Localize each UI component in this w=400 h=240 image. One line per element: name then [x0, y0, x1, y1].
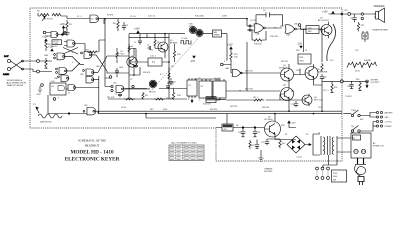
- connector box U2: [199, 79, 212, 98]
- svg-text:R15 2200: R15 2200: [195, 16, 205, 18]
- switch SW2: [351, 126, 365, 133]
- svg-text:POWER: POWER: [385, 126, 392, 128]
- svg-text:C14 .1: C14 .1: [150, 56, 157, 58]
- label Q6: [317, 69, 328, 73]
- ground chassis: [259, 150, 264, 161]
- regulator box U6: [222, 124, 233, 131]
- gate U3A: [57, 53, 65, 60]
- AC interlock box: [351, 133, 371, 158]
- svg-text:BATTERY: BATTERY: [385, 112, 394, 115]
- svg-text:+13V: +13V: [48, 46, 54, 49]
- svg-text:U4B: U4B: [256, 34, 261, 36]
- -13V arrow right: [300, 46, 302, 48]
- svg-text:R10 470: R10 470: [166, 98, 173, 100]
- svg-text:C6: C6: [171, 66, 173, 68]
- transistor Q6: [305, 64, 318, 85]
- wire U1A down feed: [99, 19, 111, 87]
- capacitor C12 rail: [320, 74, 324, 85]
- svg-text:HEATHKIT: HEATHKIT: [85, 144, 100, 148]
- svg-text:C3: C3: [134, 42, 136, 44]
- gate U1F: [46, 32, 58, 38]
- svg-text:C7: C7: [130, 79, 132, 81]
- svg-text:C21: C21: [257, 132, 260, 134]
- pin circle output: [366, 80, 369, 83]
- svg-text:C20: C20: [238, 132, 241, 134]
- svg-text:R33: R33: [334, 87, 337, 89]
- junction dots reg row: [242, 127, 244, 129]
- svg-text:U3C: U3C: [80, 74, 84, 76]
- sawtooth waveform: [347, 62, 377, 68]
- gate U1A: [90, 15, 99, 22]
- +13V arrow power: [288, 121, 290, 123]
- svg-text:C1 .1: C1 .1: [77, 16, 82, 18]
- svg-text:INTERLOCK: INTERLOCK: [373, 146, 385, 148]
- pin circles on border: [37, 60, 40, 63]
- transistor Q5: [281, 64, 294, 85]
- gate U2A: [84, 52, 92, 59]
- wire regulator row: [216, 127, 264, 129]
- +13V top right: [332, 12, 334, 14]
- X cross wires: [63, 42, 78, 55]
- transistor Q2: [158, 34, 168, 58]
- svg-text:C5: C5: [131, 56, 133, 58]
- svg-text:4.7: 4.7: [160, 74, 163, 76]
- svg-text:R20: R20: [280, 26, 283, 28]
- capacitor C1: [62, 31, 70, 37]
- pin circle speaker line: [348, 13, 351, 16]
- svg-text:120V: 120V: [333, 173, 338, 175]
- svg-text:R24: R24: [296, 50, 299, 52]
- svg-text:(CW): (CW): [222, 16, 227, 18]
- svg-text:U1D: U1D: [84, 105, 88, 107]
- svg-text:+13V: +13V: [60, 24, 66, 26]
- pin circle node C: [64, 32, 66, 34]
- label CHASSIS GROUND: [264, 168, 273, 174]
- capacitor C23: [251, 140, 259, 149]
- resistor R6b: [128, 44, 130, 54]
- voltage selector switch: [316, 167, 347, 182]
- label Q1 AF OSC: [117, 51, 125, 56]
- gate U4B: [285, 25, 296, 37]
- IC box U3: [50, 83, 66, 95]
- wire speed box right and down: [203, 34, 227, 65]
- switch SW1 keying: [343, 110, 365, 117]
- pin circle node 5: [109, 76, 112, 79]
- svg-text:9: 9: [58, 98, 59, 100]
- speed pot knob R17: [196, 29, 203, 36]
- resistor R31 series: [252, 99, 267, 101]
- capacitor C2: [122, 22, 129, 30]
- svg-text:TO KEY: TO KEY: [345, 96, 353, 98]
- capacitor C5b: [134, 63, 138, 68]
- capacitor C8 series: [166, 82, 175, 89]
- gate U3B: [59, 68, 67, 75]
- svg-text:R31: R31: [291, 91, 294, 93]
- svg-text:6: 6: [224, 61, 225, 63]
- svg-text:13V REG: 13V REG: [264, 119, 273, 121]
- cross-coupled wires: [64, 56, 84, 71]
- wire reg box to rail: [226, 114, 228, 124]
- transistor Q3 keyout: [302, 94, 312, 107]
- svg-text:R24 470: R24 470: [210, 109, 217, 111]
- label Q4: [283, 85, 287, 87]
- pin circle sidetone: [298, 24, 301, 27]
- capacitor C20: [238, 128, 245, 137]
- label switch1: [351, 110, 364, 121]
- svg-text:MODEL HD - 1410: MODEL HD - 1410: [70, 150, 113, 156]
- IC label box U1: [52, 40, 62, 45]
- svg-text:U4C: U4C: [287, 35, 292, 37]
- gate U4A: [254, 24, 265, 36]
- resistor R8: [154, 38, 159, 49]
- -13V arrow: [193, 56, 195, 58]
- label KEYER OUTPUT: [371, 80, 381, 85]
- resistor R27 on rail: [321, 29, 323, 72]
- wire gate row to Q5: [240, 72, 280, 74]
- svg-text:C9 .02: C9 .02: [250, 20, 256, 22]
- gate U4D: [232, 69, 242, 77]
- svg-text:C16: C16: [347, 86, 350, 88]
- svg-text:C2 .05: C2 .05: [130, 16, 136, 18]
- svg-text:C25 .02: C25 .02: [148, 16, 156, 18]
- svg-text:-13V: -13V: [190, 60, 195, 63]
- label Q7 AF AMP: [318, 18, 330, 23]
- clock waveform glyph: [181, 41, 191, 45]
- wire Q4 down to rail: [289, 85, 322, 111]
- note text keyer paddle: [6, 79, 26, 87]
- table cell text: [170, 146, 203, 159]
- svg-text:C7: C7: [115, 94, 117, 96]
- mechanical link dashed: [150, 33, 203, 92]
- wire border pin top: [341, 13, 343, 15]
- +13V arrow U1F: [62, 26, 64, 28]
- gate U3E: [61, 75, 69, 81]
- svg-text:( ALL VOLTAGES TO GND ): ( ALL VOLTAGES TO GND ): [171, 142, 197, 145]
- svg-text:ZD1: ZD1: [224, 129, 228, 131]
- svg-text:R11 47K: R11 47K: [107, 97, 115, 99]
- svg-text:DASH: DASH: [3, 73, 9, 76]
- pin circle keyer out on border: [340, 80, 343, 83]
- pot R2 top-left: [37, 11, 61, 22]
- +13V arrow left: [45, 39, 47, 41]
- svg-text:D1-D4: D1-D4: [297, 157, 302, 159]
- label Q8: [264, 117, 273, 122]
- svg-text:R22 47K: R22 47K: [245, 89, 253, 91]
- capacitor C24 mid: [115, 68, 119, 77]
- svg-text:R19 10K: R19 10K: [270, 36, 278, 38]
- svg-text:1.2 kHz: 1.2 kHz: [181, 38, 187, 40]
- svg-text:KEYER: KEYER: [371, 80, 379, 82]
- svg-text:-13V: -13V: [297, 43, 302, 46]
- svg-text:4: 4: [72, 62, 73, 64]
- wire mid row 99: [185, 89, 187, 100]
- svg-text:+12 VDC: +12 VDC: [385, 122, 393, 124]
- label AC INTERLOCK: [373, 142, 385, 148]
- label R16 220: [189, 24, 194, 28]
- capacitor C9 feedback: [256, 10, 283, 26]
- svg-text:U6: U6: [236, 125, 238, 127]
- AC plug and cord: [355, 158, 366, 185]
- transformer T2: [318, 133, 337, 156]
- ground arrow bottom left: [38, 86, 42, 93]
- svg-text:1000: 1000: [119, 67, 123, 69]
- svg-text:C4: C4: [147, 45, 149, 47]
- speed pot R1 wavy element: [36, 107, 62, 118]
- resistor R3 series: [66, 20, 73, 30]
- svg-text:R7: R7: [131, 46, 133, 48]
- resistor R13b: [168, 72, 170, 80]
- gate U3F: [68, 85, 75, 91]
- resistor R34b: [249, 140, 251, 149]
- capacitor C7: [115, 92, 122, 97]
- wire Q3 row: [226, 94, 302, 100]
- svg-text:R8: R8: [157, 42, 159, 44]
- transistor Q4: [281, 85, 294, 105]
- resistor R29: [357, 22, 364, 31]
- svg-text:U2: U2: [198, 78, 200, 80]
- arrow output: [366, 83, 368, 88]
- resistor R5b horizontal: [87, 51, 98, 53]
- capacitor C6: [169, 78, 177, 85]
- pin stub circles gates: [54, 52, 85, 112]
- svg-text:AF AMP: AF AMP: [170, 42, 178, 45]
- volume pot R9 knob: [149, 80, 157, 93]
- speed box: [213, 30, 222, 37]
- arrow to transformer: [305, 144, 311, 146]
- wire audio row: [125, 88, 185, 90]
- svg-text:R24 470: R24 470: [203, 104, 211, 106]
- headphone jack J2: [362, 31, 368, 42]
- svg-text:R27: R27: [323, 77, 326, 79]
- resistor chain row99: [124, 98, 165, 100]
- transistor Q1: [127, 48, 137, 75]
- double wire output: [95, 111, 342, 113]
- pin circles U4A inputs: [249, 25, 251, 27]
- svg-text:C10: C10: [296, 70, 299, 72]
- svg-text:8: 8: [72, 52, 73, 54]
- wire clock row: [195, 42, 247, 91]
- svg-text:REAR OF KEYER: REAR OF KEYER: [7, 84, 24, 87]
- wire switches to terminals: [365, 113, 376, 132]
- svg-text:R3 47K: R3 47K: [107, 15, 114, 17]
- bridge rectifier D1-D4: [287, 136, 305, 159]
- svg-text:C8 10: C8 10: [121, 107, 126, 109]
- svg-text:R28 100: R28 100: [262, 107, 269, 109]
- svg-text:13: 13: [68, 93, 70, 95]
- resistor R10 vertical: [172, 89, 181, 100]
- gate U1D keying: [87, 108, 96, 115]
- svg-text:GND: GND: [385, 117, 390, 119]
- terminal strip circles: [376, 111, 382, 127]
- third rail wire: [146, 114, 216, 118]
- junction dot U1F out: [62, 34, 64, 36]
- svg-text:R25 270: R25 270: [281, 61, 288, 63]
- capacitor C3: [134, 38, 142, 45]
- wire to bridge: [275, 123, 296, 140]
- svg-text:GROUND: GROUND: [264, 171, 273, 173]
- svg-text:(SEE NOTE): (SEE NOTE): [40, 122, 52, 124]
- svg-text:D1: D1: [285, 134, 287, 136]
- svg-text:R18 10K: R18 10K: [254, 44, 262, 46]
- resistor R30 vertical: [356, 79, 362, 91]
- resistor R5 pull-up: [45, 58, 47, 69]
- resistor R37 mid: [116, 48, 118, 63]
- gate U1C: [116, 86, 124, 93]
- svg-text:SPEED: SPEED: [214, 35, 221, 37]
- transistor Q8 regulator: [265, 114, 281, 140]
- resistor R4 pull-up: [45, 40, 52, 51]
- svg-text:C11 .1: C11 .1: [253, 97, 258, 99]
- svg-text:R29: R29: [361, 25, 364, 27]
- pin circles cluster: [41, 84, 44, 87]
- label Q2: [170, 40, 178, 45]
- wires osc internals: [129, 34, 169, 75]
- resistor R18 feedback: [252, 30, 266, 46]
- svg-text:SPEAKER: SPEAKER: [374, 5, 385, 8]
- svg-text:HEADPHONES: HEADPHONES: [373, 29, 389, 32]
- wire U2 feed: [206, 98, 220, 100]
- svg-text:R25 220: R25 220: [230, 106, 237, 108]
- svg-text:R11: R11: [145, 95, 148, 97]
- filter box R22: [301, 26, 320, 34]
- svg-text:R33: R33: [281, 125, 284, 127]
- svg-text:C15: C15: [330, 60, 333, 62]
- key paddle jack J1: [7, 59, 26, 70]
- +13V arrow center: [137, 31, 139, 33]
- svg-text:SIDETONE: SIDETONE: [317, 71, 328, 73]
- wire pins into gates: [39, 61, 52, 72]
- resistor R34 drop: [331, 81, 338, 92]
- svg-text:R36 470: R36 470: [143, 72, 150, 74]
- wire cluster to NAND: [48, 76, 99, 114]
- wire to speaker: [329, 13, 376, 15]
- svg-text:7 GND: 7 GND: [53, 43, 59, 45]
- svg-text:R23 470: R23 470: [245, 71, 253, 73]
- resistor R13 vertical: [173, 44, 181, 62]
- cable curve: [327, 24, 336, 61]
- transistor Q7: [319, 22, 332, 39]
- circuit board dashed outline: [30, 8, 342, 161]
- svg-text:+13V: +13V: [322, 11, 328, 14]
- title block: [65, 139, 120, 163]
- pin circle speed: [221, 63, 224, 66]
- wires to voltage switch: [318, 155, 337, 168]
- terminal labels: [385, 112, 394, 129]
- svg-text:C14: C14: [318, 107, 321, 109]
- wires gate outputs right: [91, 55, 129, 73]
- wire U1C out: [123, 88, 150, 90]
- svg-text:+13V: +13V: [291, 123, 297, 125]
- pin circles at gate U1C: [111, 85, 113, 87]
- +13V arrow cluster: [51, 49, 53, 51]
- junction dots rails: [104, 18, 323, 128]
- svg-text:1k Hz: 1k Hz: [355, 71, 360, 73]
- wire jack to pins: [26, 61, 37, 72]
- junction plug circles: [361, 13, 363, 15]
- junction dot: [68, 113, 70, 115]
- svg-text:C22: C22: [261, 142, 264, 144]
- svg-text:AF PITCH: AF PITCH: [44, 18, 53, 21]
- connector box P1: [187, 78, 197, 98]
- resistor R14 vertical: [230, 49, 239, 61]
- box U5: [298, 54, 311, 64]
- wire U1A output to right rail: [98, 19, 247, 24]
- svg-text:R32: R32: [282, 143, 285, 145]
- label Q5: [279, 65, 287, 69]
- svg-text:CLOCK: CLOCK: [214, 78, 221, 80]
- svg-text:7: 7: [199, 100, 200, 102]
- capacitor C16: [347, 81, 354, 88]
- gate U2B: [86, 69, 94, 76]
- svg-text:C23: C23: [251, 145, 254, 147]
- svg-text:OUTPUT: OUTPUT: [371, 82, 381, 84]
- capacitor C21: [253, 128, 260, 137]
- svg-text:KEYING: KEYING: [279, 67, 287, 69]
- svg-text:PHONE: PHONE: [364, 60, 371, 62]
- transformer box T1: [137, 58, 169, 66]
- value labels scatter: [36, 10, 371, 136]
- arrow down P101: [191, 99, 193, 103]
- speed pot knob R16: [189, 26, 196, 33]
- +13V arrow at R14: [230, 47, 232, 49]
- svg-text:+13V: +13V: [134, 28, 140, 31]
- capacitor C17: [350, 14, 357, 22]
- label Q3: [314, 97, 324, 101]
- resistor R11: [142, 92, 148, 100]
- pin circle U1F input: [43, 31, 46, 34]
- svg-text:F1: F1: [353, 138, 355, 140]
- svg-text:SCHEMATIC OF THE: SCHEMATIC OF THE: [78, 139, 106, 143]
- wire U1F out: [58, 28, 67, 35]
- svg-text:+13V: +13V: [50, 81, 55, 83]
- capacitor C13: [291, 101, 298, 107]
- resistor R6 vertical: [113, 19, 119, 31]
- svg-text:U1C: U1C: [113, 83, 117, 85]
- svg-text:R12: R12: [150, 109, 153, 111]
- svg-text:D2: D2: [306, 134, 308, 136]
- voltage chart table: [169, 145, 204, 161]
- wire Q5 to Q6: [294, 69, 306, 75]
- svg-text:+13V: +13V: [36, 94, 41, 96]
- svg-text:+13V: +13V: [227, 44, 233, 47]
- pin circle audio row: [132, 85, 134, 87]
- svg-text:ELECTRONIC KEYER: ELECTRONIC KEYER: [65, 157, 120, 163]
- svg-text:C19: C19: [355, 50, 358, 52]
- svg-text:AF OUTPUT: AF OUTPUT: [318, 19, 330, 22]
- wire into U4A: [227, 19, 254, 73]
- svg-text:SW: SW: [333, 180, 336, 182]
- svg-text:KEY OUT: KEY OUT: [314, 99, 324, 101]
- wire pot to gate U1A: [38, 13, 90, 19]
- wire keyer output row: [322, 80, 368, 82]
- wire U4B out: [296, 29, 322, 52]
- relay box K1: [206, 97, 226, 103]
- gate U3G: [67, 40, 75, 47]
- wire row91 to Q4: [226, 90, 280, 91]
- wire U4A to U4B: [265, 27, 282, 28]
- svg-text:C12 .1: C12 .1: [323, 90, 329, 92]
- svg-text:C17: C17: [350, 18, 353, 20]
- svg-text:8: 8: [188, 99, 189, 101]
- svg-text:220K: 220K: [189, 26, 194, 28]
- svg-text:U4D: U4D: [294, 24, 298, 26]
- svg-text:DOT: DOT: [4, 56, 9, 58]
- wire transformer connections: [313, 134, 351, 165]
- capacitor C22: [261, 139, 275, 145]
- svg-text:240V: 240V: [333, 176, 338, 178]
- svg-text:TUNE: TUNE: [351, 110, 357, 112]
- wire U3G out: [74, 44, 85, 53]
